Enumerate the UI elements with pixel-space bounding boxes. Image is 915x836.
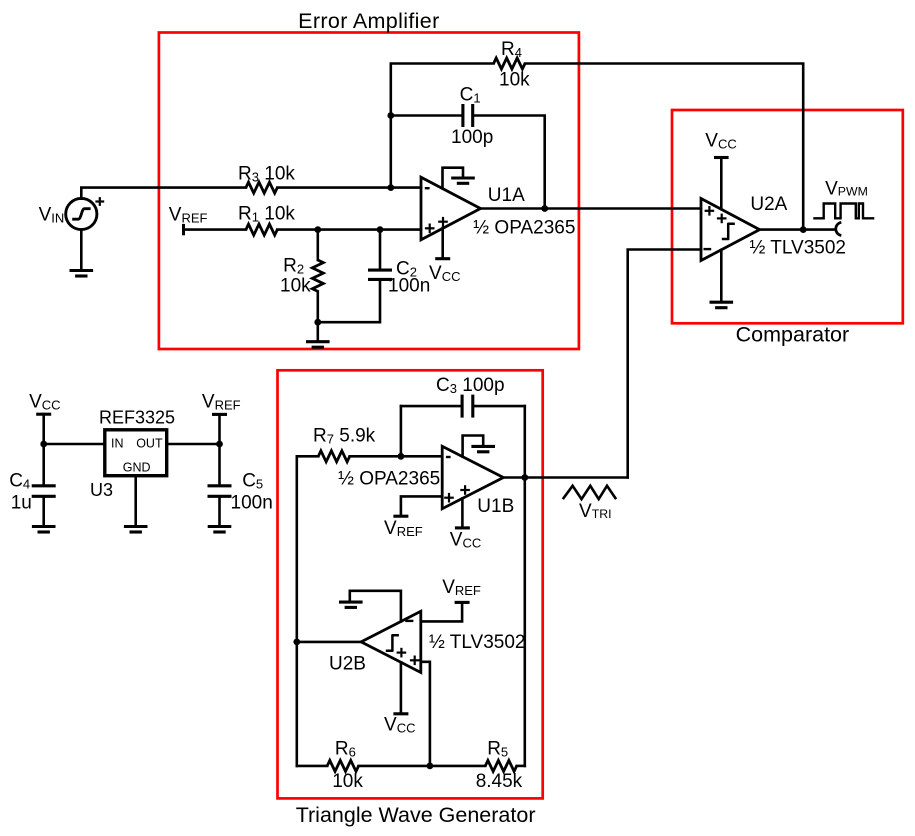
wire to R2 (316, 230, 319, 260)
output terminal arc (836, 222, 842, 235)
wire U2B minus to VREF (421, 604, 462, 622)
svg-text:R3 10k: R3 10k (238, 164, 295, 185)
wire VCC to IN pin (44, 443, 105, 446)
wire C3 left vertical (400, 406, 403, 456)
supply VREF U1B (393, 515, 408, 518)
source VIN (66, 198, 97, 229)
resistor R3 (246, 182, 277, 193)
svg-text:Comparator: Comparator (736, 323, 850, 347)
svg-text:½ TLV3502: ½ TLV3502 (750, 238, 846, 259)
node U1A output (541, 205, 548, 212)
wire VTRI vertical to U2A minus (628, 250, 701, 478)
svg-text:OUT: OUT (136, 437, 163, 451)
op-amp U1A (421, 177, 481, 240)
supply VREF REF3325 (212, 413, 227, 416)
wire U1B plus to VREF (401, 496, 442, 514)
op-amp U1B (442, 446, 503, 508)
resistor R7 (297, 455, 319, 458)
resistor R5 (485, 760, 516, 771)
supply VCC REF3325 (36, 413, 51, 416)
triangle wave generator box (278, 370, 543, 798)
wire VIN to R3 (81, 188, 246, 199)
wire U1B output (503, 476, 627, 479)
wire left vertical to R6 (297, 765, 327, 768)
waveform VTRI icon (563, 486, 616, 499)
svg-text:100n: 100n (231, 493, 273, 514)
svg-text:C3 100p: C3 100p (436, 375, 505, 396)
wire VREF to R1 (184, 228, 246, 231)
wire R3 to U1A minus (277, 186, 421, 189)
svg-text:R1 10k: R1 10k (238, 204, 295, 225)
wire R1 to U1A plus (277, 228, 421, 231)
wire R2 to ground (316, 291, 319, 340)
wire GND pin to ground (134, 476, 137, 525)
node R2/C2 junction (314, 319, 321, 326)
svg-text:10k: 10k (280, 275, 311, 296)
resistor R6 (327, 760, 358, 771)
svg-text:10k: 10k (332, 771, 363, 792)
ground below R2 (306, 340, 330, 343)
svg-text:8.45k: 8.45k (476, 771, 523, 792)
wire U1A output to U2A plus (481, 207, 702, 210)
svg-text:U2B: U2B (329, 653, 366, 674)
ground below VIN (70, 269, 94, 272)
resistor R2 (312, 260, 323, 291)
svg-text:Error Amplifier: Error Amplifier (298, 9, 439, 33)
svg-text:U1B: U1B (477, 496, 514, 517)
capacitor C5 (208, 484, 232, 487)
node VCC/C4/IN junction (40, 441, 47, 448)
svg-text:R7 5.9k: R7 5.9k (313, 426, 376, 447)
capacitor C1 (461, 104, 464, 127)
wire C5 to ground (218, 498, 221, 525)
wire VCC down to C4 (42, 414, 45, 484)
wire C3 right vertical down to R5 (523, 406, 526, 766)
power VCC U2B (400, 662, 403, 712)
svg-text:REF3325: REF3325 (99, 408, 175, 428)
wire R7 to U1B minus (350, 455, 443, 458)
svg-text:Triangle Wave Generator: Triangle Wave Generator (296, 803, 536, 827)
ground above U1B (463, 436, 484, 457)
capacitor C2 (368, 269, 392, 272)
wire VIN to ground (80, 230, 83, 269)
svg-text:U1A: U1A (488, 185, 525, 206)
ground below U3 (124, 525, 148, 528)
wire OUT pin to VREF (167, 443, 220, 446)
wire to C2 (379, 230, 382, 269)
power VCC U1A (441, 228, 444, 257)
power VCC U1B (461, 498, 464, 526)
ground above U2B (350, 591, 401, 622)
svg-text:U3: U3 (90, 480, 113, 500)
node U2B output (293, 639, 300, 646)
waveform PWM icon (813, 204, 874, 219)
power VCC U2A (714, 156, 729, 159)
svg-text:U2A: U2A (750, 194, 787, 215)
wire U2B plus down to R6/R5 (421, 662, 430, 766)
wire R3 node up to R4 (391, 64, 494, 188)
node R7/C3 junction (398, 453, 405, 460)
node R6/R5 junction (427, 763, 434, 770)
wire R4 to feedback vertical (525, 64, 803, 230)
svg-text:1u: 1u (11, 492, 32, 513)
svg-text:½ OPA2365: ½ OPA2365 (338, 469, 440, 490)
supply VREF U2B (455, 601, 470, 604)
svg-text:100p: 100p (451, 127, 493, 148)
svg-text:½ OPA2365: ½ OPA2365 (473, 217, 575, 238)
svg-text:IN: IN (111, 437, 124, 451)
wire C1 to U1A output (474, 116, 544, 209)
wire VREF down to C5 (218, 414, 221, 484)
wire R6 to R5 (359, 765, 486, 768)
svg-text:½ TLV3502: ½ TLV3502 (429, 632, 525, 653)
error amplifier box (159, 33, 579, 350)
ground above U1A (443, 168, 464, 189)
ground below U2A (720, 250, 723, 301)
svg-text:GND: GND (123, 461, 151, 475)
svg-text:10k: 10k (499, 70, 530, 91)
resistor R4 (494, 58, 525, 69)
wire R5 to right vertical (517, 765, 525, 768)
wire C4 to ground (42, 498, 45, 525)
capacitor C3 (401, 405, 461, 408)
node R3 junction (387, 184, 394, 191)
ground below C4 (32, 525, 56, 528)
node C2 junction (377, 226, 384, 233)
op-amp U2A (701, 199, 760, 261)
svg-text:100n: 100n (388, 275, 430, 296)
IC U3 REF3325 box (105, 430, 167, 476)
schmitt symbol U2B (386, 635, 399, 651)
node R2 junction (314, 226, 321, 233)
node U1B output (521, 474, 528, 481)
capacitor C4 (32, 484, 56, 487)
ground below C5 (208, 525, 232, 528)
wire U2A output (760, 228, 835, 231)
wire U2B output (297, 641, 361, 644)
resistor R1 (246, 224, 277, 235)
node U2A output (800, 226, 807, 233)
wire left vertical R7 to R6 (295, 456, 298, 766)
node VREF input terminal (182, 224, 185, 235)
comparator box (672, 110, 903, 323)
wire to C1 (391, 114, 462, 117)
op-amp U2B (361, 611, 421, 672)
wire C2 to R2 bottom (318, 281, 380, 322)
node C1 junction (387, 112, 394, 119)
node OUT/VREF/C5 junction (216, 441, 223, 448)
schmitt symbol U2A (722, 224, 735, 239)
